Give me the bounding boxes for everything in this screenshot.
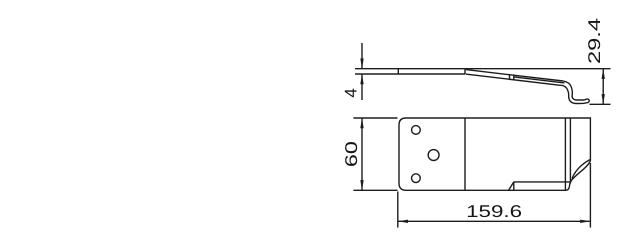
side view: bend tick at x=398 — [397, 69, 399, 74]
side view: tongue top sloped line — [466, 70, 563, 81]
dim 4: lower dimension line segment with up arrow — [361, 74, 363, 100]
plan view: bend tangent curve near bottom-right — [572, 160, 590, 179]
svg-text:4: 4 — [342, 88, 361, 97]
dim 159.6: right extension line — [589, 163, 591, 228]
dim 60: top extension line — [353, 117, 397, 119]
plan view: fold line of hooked tab — [514, 181, 571, 183]
side view: J-hook top surface — [563, 81, 587, 100]
dim 159.6: left extension line — [397, 192, 399, 228]
plan view: large hole center — [428, 150, 439, 161]
side view: hook tip cap — [586, 99, 589, 103]
side view: bend tick at x=465 (start of sloped tongue) — [464, 69, 466, 74]
plan view: bend line at x=465 — [464, 118, 466, 190]
plan view: small hole bottom-left — [412, 174, 421, 183]
side view: folded tab edge middle line — [514, 77, 565, 83]
side view: fold tick 2 on tongue — [513, 74, 515, 79]
plan view: small hole top-left — [412, 126, 421, 135]
side view: fold tick 1 on tongue — [509, 74, 511, 79]
side view: tongue bottom sloped line — [466, 74, 562, 85]
svg-text:159.6: 159.6 — [466, 202, 522, 221]
dim 159.6: horizontal dimension line with arrows — [398, 220, 591, 222]
dim 60: bottom extension line — [353, 189, 397, 191]
svg-text:29.4: 29.4 — [585, 18, 604, 64]
plan view: plate outline with rounded left corners and curved cut at bottom right — [399, 118, 590, 190]
dim 60: vertical dimension line with arrows — [361, 118, 363, 190]
dim 29.4: vertical dimension line at right — [602, 69, 604, 105]
svg-text:60: 60 — [342, 141, 361, 167]
plan view: hook bend tangent line B — [569, 118, 571, 184]
plan view: hook bend tangent line A — [564, 118, 566, 190]
side view: J-hook bottom surface — [561, 85, 586, 103]
dim 29.4: bottom extension line — [590, 103, 611, 105]
plan view: tab wedge vertical — [513, 182, 515, 190]
side view: bottom surface line of flat strip — [355, 73, 465, 75]
side view: top surface line of flat strip (continues right as extension line for 29.4) — [355, 68, 611, 70]
plan view: tab wedge diagonal — [509, 182, 514, 190]
dim 4: upper dimension line segment with down arrow — [361, 43, 363, 69]
